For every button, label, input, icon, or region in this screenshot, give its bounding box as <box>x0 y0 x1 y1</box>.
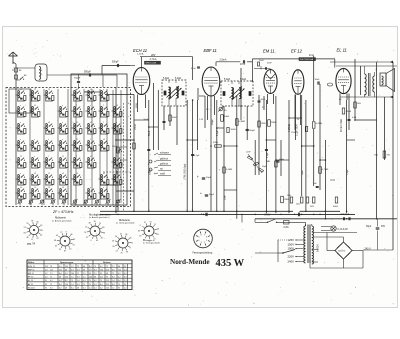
svg-text:1kΩ: 1kΩ <box>357 103 361 105</box>
speaker <box>380 73 386 86</box>
wire bridge left <box>327 250 335 252</box>
svg-text:k3: k3 <box>76 89 78 91</box>
svg-text:100: 100 <box>65 277 68 279</box>
svg-text:500pF: 500pF <box>84 71 91 74</box>
wire horizontal connectors <box>105 94 134 96</box>
svg-text:4,2: 4,2 <box>124 287 127 289</box>
capacitor cath EL11 <box>348 118 351 120</box>
resistor 42kΩ <box>215 145 222 147</box>
voltage selector arm <box>283 250 295 254</box>
resistor anode osc <box>169 115 172 121</box>
wire AVC to grid <box>130 65 135 67</box>
svg-text:schwarz: schwarz <box>160 152 170 155</box>
antenna lead series coil <box>14 75 17 79</box>
svg-text:12: 12 <box>20 89 22 91</box>
wire ECH11 anode stub <box>141 57 143 68</box>
svg-text:LFW-1MΩ (log): LFW-1MΩ (log) <box>184 163 187 180</box>
svg-text:100: 100 <box>100 269 103 271</box>
svg-text:0,25MΩ: 0,25MΩ <box>289 124 291 132</box>
svg-text:240V: 240V <box>288 260 295 264</box>
svg-text:8,4: 8,4 <box>89 266 92 268</box>
svg-text:7: 7 <box>48 156 49 158</box>
tuner coil/switch cluster 11 <box>30 156 40 169</box>
power transformer core <box>307 225 309 264</box>
svg-text:50kΩ: 50kΩ <box>112 146 117 148</box>
svg-text:9: 9 <box>66 231 67 233</box>
wire legend leads <box>154 153 158 155</box>
svg-text:435 W: 435 W <box>216 258 245 269</box>
tube V3 EM11 <box>264 70 277 94</box>
svg-text:7: 7 <box>103 105 104 107</box>
dashed link horizontal <box>103 171 130 173</box>
tuner coil/switch cluster 26 <box>72 89 82 102</box>
svg-text:150Ω: 150Ω <box>135 124 137 130</box>
resistor 150Ω cath EL11 <box>342 108 345 114</box>
svg-text:215: 215 <box>45 266 48 268</box>
svg-text:EF 12: EF 12 <box>28 277 34 279</box>
wire right column <box>377 219 379 227</box>
tuner coil/switch cluster 6 <box>16 173 26 186</box>
svg-text:0,3MΩ: 0,3MΩ <box>239 121 246 123</box>
svg-text:Röhre: Röhre <box>28 262 35 264</box>
svg-text:4,2: 4,2 <box>118 277 121 279</box>
tuner coil/switch cluster 30 <box>72 156 82 169</box>
tuner coil/switch cluster 38 <box>99 89 109 102</box>
svg-text:R.Vkl 0,1MΩ: R.Vkl 0,1MΩ <box>341 119 343 132</box>
svg-text:8,4: 8,4 <box>100 284 103 286</box>
svg-text:k3: k3 <box>90 122 92 124</box>
svg-text:6,3: 6,3 <box>100 266 103 268</box>
svg-text:70: 70 <box>40 225 42 227</box>
svg-text:75: 75 <box>89 280 91 282</box>
svg-text:8,4: 8,4 <box>59 284 62 286</box>
svg-text:Spannungen: Spannungen <box>60 262 74 264</box>
output transformer secondary <box>373 76 375 92</box>
svg-text:1,4: 1,4 <box>71 277 74 279</box>
resistor feed <box>354 102 357 108</box>
capacitor 500pF osc <box>77 80 80 82</box>
wire HT bus upper <box>100 210 293 212</box>
svg-text:EM 11: EM 11 <box>263 49 275 54</box>
svg-text:215: 215 <box>100 277 103 279</box>
tuner coil/switch cluster 39 <box>99 105 109 118</box>
svg-text:6,3: 6,3 <box>50 287 53 289</box>
svg-text:10nF: 10nF <box>315 79 321 81</box>
primary taps <box>297 239 304 241</box>
svg-text:1MΩ: 1MΩ <box>284 199 289 201</box>
svg-text:150Ω: 150Ω <box>136 103 138 108</box>
IF transformer 1 (dashed can) <box>162 80 186 106</box>
svg-text:85: 85 <box>157 234 159 236</box>
svg-text:48: 48 <box>118 266 120 268</box>
ganged tuning dashed link <box>123 103 125 211</box>
tuner coil/switch cluster 23 <box>58 156 68 169</box>
alignment knob 5 <box>138 221 159 242</box>
power transformer heater secondary <box>312 250 314 264</box>
svg-text:2,5mA: 2,5mA <box>220 59 227 62</box>
mains filter cap 2 <box>348 217 350 220</box>
svg-text:2x300V: 2x300V <box>318 244 320 252</box>
capacitor 5nF <box>316 185 319 187</box>
tuner coil/switch cluster 2 <box>16 105 26 118</box>
svg-text:geg. TA: geg. TA <box>27 243 36 246</box>
capacitor 500pF antenna series <box>88 73 90 76</box>
svg-text:48: 48 <box>59 277 61 279</box>
tuner trimmer row <box>18 199 23 205</box>
svg-text:100: 100 <box>71 273 74 275</box>
rectifier bridge B250 <box>335 242 352 259</box>
tuner coil/switch cluster 31 <box>72 173 82 186</box>
svg-text:50: 50 <box>69 249 71 251</box>
power transformer HT secondary <box>312 226 314 249</box>
svg-text:1,4: 1,4 <box>112 280 115 282</box>
svg-text:215: 215 <box>106 284 109 286</box>
svg-text:215: 215 <box>106 280 109 282</box>
svg-text:63: 63 <box>138 230 140 232</box>
connector arrow right lower <box>390 96 393 99</box>
resistor chain power 4 <box>335 197 338 203</box>
tuner coil/switch cluster 36 <box>86 156 96 169</box>
svg-text:1,4: 1,4 <box>77 280 80 282</box>
svg-text:1MΩ: 1MΩ <box>266 161 271 163</box>
oscillator coil box (solid) <box>71 74 127 205</box>
output transformer primary <box>365 74 367 95</box>
svg-text:100pF: 100pF <box>212 118 214 125</box>
svg-text:48: 48 <box>83 269 85 271</box>
svg-text:weiß: weiß <box>160 173 166 176</box>
wire output lower <box>340 96 391 98</box>
wire screen feed long <box>252 58 334 60</box>
svg-text:72: 72 <box>131 242 133 244</box>
svg-text:48: 48 <box>65 269 67 271</box>
svg-text:75: 75 <box>83 284 85 286</box>
svg-text:8,4: 8,4 <box>71 287 74 289</box>
svg-text:ECH 11: ECH 11 <box>28 266 36 268</box>
voltage selector feed <box>278 252 283 254</box>
svg-text:95: 95 <box>124 266 126 268</box>
svg-text:0,3: 0,3 <box>59 280 62 282</box>
capacitor coupling EL11 <box>317 81 319 84</box>
svg-text:39: 39 <box>126 251 128 253</box>
svg-text:6,3: 6,3 <box>77 277 80 279</box>
svg-text:50pF: 50pF <box>262 166 267 168</box>
alignment knob 1 <box>24 221 43 241</box>
svg-text:12: 12 <box>48 187 50 189</box>
svg-text:75: 75 <box>112 273 114 275</box>
svg-text:0,3: 0,3 <box>77 284 80 286</box>
svg-text:rot: rot <box>160 168 163 171</box>
svg-text:8,4: 8,4 <box>112 284 115 286</box>
svg-text:0,3: 0,3 <box>124 269 127 271</box>
svg-text:+: + <box>197 174 199 178</box>
svg-text:6,3: 6,3 <box>65 273 68 275</box>
capacitor 47nF <box>242 60 244 63</box>
svg-text:EM 11: EM 11 <box>28 273 35 275</box>
svg-text:Kl.O: Kl.O <box>331 180 336 182</box>
tuner coil/switch cluster 20 <box>58 105 68 118</box>
svg-text:61: 61 <box>120 233 122 235</box>
svg-text:75: 75 <box>77 273 79 275</box>
svg-text:75: 75 <box>118 284 120 286</box>
svg-text:30kΩ: 30kΩ <box>172 117 177 119</box>
resistor 30kΩ <box>227 128 229 133</box>
svg-text:Nord-Mende: Nord-Mende <box>170 258 210 266</box>
svg-text:SPEZ.0448: SPEZ.0448 <box>146 63 157 65</box>
svg-text:k3: k3 <box>90 89 92 91</box>
output transformer core <box>368 73 370 96</box>
svg-text:8,4: 8,4 <box>94 269 97 271</box>
svg-text:k3: k3 <box>62 187 64 189</box>
svg-text:95: 95 <box>100 273 102 275</box>
svg-text:61: 61 <box>55 245 57 247</box>
wire antenna lead down <box>15 64 17 205</box>
svg-text:k3: k3 <box>103 173 105 175</box>
svg-text:2,1: 2,1 <box>112 287 115 289</box>
svg-text:(n. Anschl geschätzt !): (n. Anschl geschätzt !) <box>89 216 110 219</box>
capacitor 0,1uF mid <box>191 153 194 155</box>
tuner coil/switch cluster 40 <box>99 122 109 135</box>
svg-text:150Ω: 150Ω <box>346 111 352 113</box>
svg-text:5,4kΩ: 5,4kΩ <box>175 78 181 80</box>
svg-text:100: 100 <box>118 269 121 271</box>
antenna <box>9 52 14 56</box>
power transformer primary <box>304 226 306 263</box>
resistor 1MΩ EM <box>258 121 261 127</box>
fuse 0,8A <box>284 221 290 224</box>
svg-text:B250C90: B250C90 <box>338 251 345 253</box>
svg-text:33: 33 <box>36 221 38 223</box>
svg-text:0,1μF: 0,1μF <box>267 152 269 158</box>
svg-text:37: 37 <box>144 222 146 224</box>
antenna coupling coil L-ant <box>35 64 47 81</box>
svg-text:0,3A: 0,3A <box>352 116 357 119</box>
svg-text:42kΩ: 42kΩ <box>213 142 219 144</box>
svg-text:4,2: 4,2 <box>45 277 48 279</box>
svg-text:75: 75 <box>50 266 52 268</box>
svg-text:48: 48 <box>106 273 108 275</box>
svg-text:50nF: 50nF <box>144 119 149 121</box>
junction dots <box>115 211 117 213</box>
alignment knob 3 <box>84 221 105 242</box>
svg-text:37: 37 <box>86 237 88 239</box>
svg-text:1kΩ: 1kΩ <box>287 195 291 197</box>
svg-text:1,4V: 1,4V <box>199 119 204 121</box>
svg-text:0,8A: 0,8A <box>284 226 289 229</box>
wire bridge right <box>352 250 363 252</box>
svg-text:4,2: 4,2 <box>45 273 48 275</box>
svg-text:50kΩ: 50kΩ <box>224 116 230 118</box>
svg-text:75: 75 <box>106 266 108 268</box>
svg-text:0,2MΩ: 0,2MΩ <box>316 123 323 125</box>
svg-text:96: 96 <box>103 232 105 234</box>
wire y75 to mixer grid <box>47 74 103 76</box>
svg-text:37: 37 <box>40 235 42 237</box>
svg-text:25nF: 25nF <box>225 194 227 200</box>
svg-text:30μF: 30μF <box>366 226 372 228</box>
tuner coil/switch cluster 45 <box>112 122 122 135</box>
resistor 7kΩ 1W <box>383 151 386 158</box>
svg-text:1,4: 1,4 <box>71 284 74 286</box>
tube V5 EL11 <box>336 68 351 93</box>
svg-text:95: 95 <box>45 287 47 289</box>
svg-text:75: 75 <box>100 280 102 282</box>
svg-text:6,3: 6,3 <box>59 287 62 289</box>
svg-text:0: 0 <box>91 240 92 242</box>
svg-text:4,7mA: 4,7mA <box>150 58 157 61</box>
svg-text:50μF: 50μF <box>209 194 215 196</box>
svg-text:0,3: 0,3 <box>59 266 62 268</box>
svg-text:k3: k3 <box>103 139 105 141</box>
svg-text:9: 9 <box>130 248 131 250</box>
svg-text:k3: k3 <box>20 187 22 189</box>
resistor anode EF12 <box>312 122 315 129</box>
svg-text:75: 75 <box>94 266 96 268</box>
svg-text:50μF: 50μF <box>206 177 212 179</box>
svg-text:100: 100 <box>65 284 68 286</box>
tuner coil/switch cluster 34 <box>86 122 96 135</box>
svg-text:7kΩ: 7kΩ <box>374 155 378 157</box>
svg-text:5kΩ: 5kΩ <box>310 206 314 208</box>
svg-text:0,1μF: 0,1μF <box>217 129 219 136</box>
tuner coil/switch cluster 4 <box>16 139 26 152</box>
svg-text:2,1: 2,1 <box>50 273 53 275</box>
svg-text:0,3: 0,3 <box>45 269 48 271</box>
electrolytic 50uF #2 <box>205 194 208 196</box>
svg-text:100: 100 <box>65 266 68 268</box>
svg-text:k3: k3 <box>90 156 92 158</box>
svg-text:100: 100 <box>89 277 92 279</box>
wire mains switch line <box>257 221 267 223</box>
svg-text:215: 215 <box>59 269 62 271</box>
svg-text:6,3: 6,3 <box>83 287 86 289</box>
svg-text:0,7MΩ: 0,7MΩ <box>322 169 329 171</box>
resistor grid leak EL11 <box>319 167 322 174</box>
svg-text:47nF: 47nF <box>240 64 246 66</box>
ganged tuning dashed link 2 <box>123 103 125 211</box>
capacitor 100pF <box>246 128 249 130</box>
svg-text:0,1A 6,3V: 0,1A 6,3V <box>338 228 349 231</box>
svg-text:500pF: 500pF <box>74 78 81 80</box>
svg-text:4,2: 4,2 <box>89 269 92 271</box>
svg-text:7: 7 <box>76 156 77 158</box>
svg-text:75: 75 <box>77 266 79 268</box>
svg-text:12: 12 <box>20 156 22 158</box>
svg-text:Skalenl.: Skalenl. <box>28 287 36 289</box>
tuner coil/switch cluster 1 <box>16 89 26 102</box>
tuner coil/switch cluster 47 <box>112 173 122 186</box>
tuner coil/switch cluster 25 <box>58 187 68 200</box>
inner antenna input box <box>9 89 31 113</box>
connector arrow right top <box>390 61 393 64</box>
capacitor 500pF osc top <box>116 64 118 67</box>
wire bus stub left <box>254 219 256 223</box>
svg-text:48: 48 <box>77 287 79 289</box>
svg-text:4,2: 4,2 <box>118 273 121 275</box>
svg-text:5nF: 5nF <box>313 183 317 185</box>
tuner coil/switch cluster 46 <box>112 156 122 169</box>
svg-text:100pF: 100pF <box>249 130 256 132</box>
svg-text:8,4: 8,4 <box>124 277 127 279</box>
svg-text:215: 215 <box>106 269 109 271</box>
svg-text:35: 35 <box>129 237 131 239</box>
svg-text:0,3: 0,3 <box>71 269 74 271</box>
svg-text:85: 85 <box>24 232 26 234</box>
svg-text:76: 76 <box>120 252 122 254</box>
svg-text:Richtwerte: Richtwerte <box>55 217 67 220</box>
svg-text:Ströme: Ströme <box>103 261 111 264</box>
svg-text:1,4: 1,4 <box>89 287 92 289</box>
svg-text:7: 7 <box>103 122 104 124</box>
svg-text:AZ 11: AZ 11 <box>28 283 34 286</box>
resistor det load <box>290 197 293 203</box>
svg-text:EL 11: EL 11 <box>28 280 34 282</box>
svg-text:95: 95 <box>89 273 91 275</box>
tube V1 ECH11 <box>133 68 150 95</box>
capacitor padder <box>147 148 150 150</box>
svg-text:12: 12 <box>48 173 50 175</box>
resistor osc grid <box>117 147 120 153</box>
tuner coil/switch cluster 13 <box>30 187 40 200</box>
svg-text:26: 26 <box>101 237 103 239</box>
svg-text:48: 48 <box>65 287 67 289</box>
svg-text:50nF: 50nF <box>261 99 266 101</box>
svg-text:85: 85 <box>94 221 96 223</box>
svg-text:12: 12 <box>34 89 36 91</box>
svg-text:83: 83 <box>73 239 75 241</box>
svg-text:24: 24 <box>115 236 117 238</box>
wire output top 1 <box>330 61 391 63</box>
svg-text:100pF: 100pF <box>149 168 151 175</box>
tuner coil/switch cluster 3 <box>16 122 26 135</box>
resistor chain power 3 <box>312 197 315 203</box>
svg-text:EL 11: EL 11 <box>337 48 347 53</box>
tube V4 EF12 <box>292 70 304 95</box>
resistor AVC 2 <box>223 167 226 173</box>
wire osc box feed <box>102 65 130 67</box>
tuner coil/switch cluster 14 <box>44 89 54 102</box>
tuner coil/switch cluster 8 <box>30 89 40 102</box>
tuner coil/switch cluster 42 <box>99 173 109 186</box>
electrolytic 50uF #1 <box>202 177 205 179</box>
svg-text:gelb/rot: gelb/rot <box>160 158 168 161</box>
svg-text:95: 95 <box>45 284 47 286</box>
tuner coil/switch cluster 27 <box>72 105 82 118</box>
svg-text:12: 12 <box>76 122 78 124</box>
svg-text:100: 100 <box>106 287 109 289</box>
svg-text:48: 48 <box>26 237 28 239</box>
svg-text:74: 74 <box>36 238 38 240</box>
svg-text:4,2: 4,2 <box>124 273 127 275</box>
svg-text:50: 50 <box>112 246 114 248</box>
svg-text:30kΩ: 30kΩ <box>231 129 237 131</box>
wire lamp feed <box>321 226 331 228</box>
svg-text:48: 48 <box>157 229 159 231</box>
svg-text:50nF: 50nF <box>302 169 304 175</box>
tube socket bottom view <box>194 229 213 248</box>
wire mains left <box>255 252 278 254</box>
tuner coil/switch cluster 7 <box>16 187 26 200</box>
svg-text:240V: 240V <box>265 212 271 216</box>
electrolytic smoothing cap <box>297 213 299 217</box>
svg-text:k3: k3 <box>34 173 36 175</box>
svg-text:k3: k3 <box>76 173 78 175</box>
wire into tuner <box>102 75 104 87</box>
tuner coil/switch cluster 29 <box>72 139 82 152</box>
svg-text:95: 95 <box>106 277 108 279</box>
speaker field coil <box>382 76 384 85</box>
tuner coil/switch cluster 5 <box>16 156 26 169</box>
svg-text:10nF: 10nF <box>246 152 251 154</box>
